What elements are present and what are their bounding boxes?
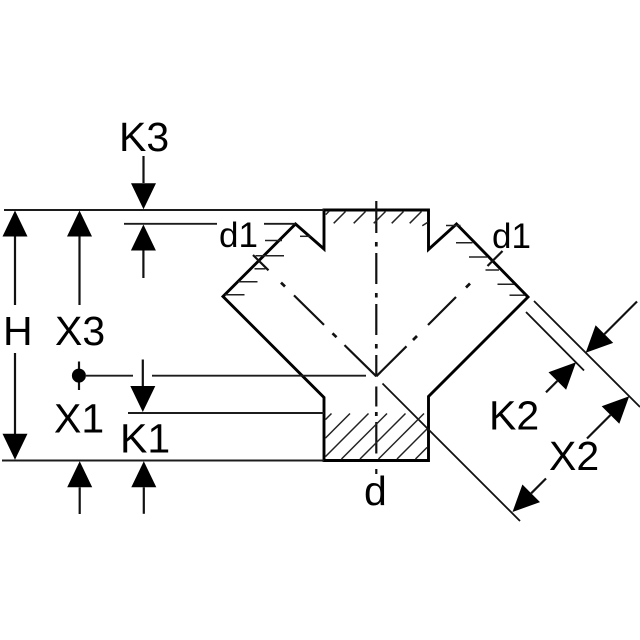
svg-text:d1: d1 — [492, 217, 531, 256]
dimension K2 lower arrow — [546, 362, 576, 392]
right branch socket hatch dashes — [446, 226, 525, 296]
left branch centerline — [253, 255, 376, 376]
dimension K3 lower arrow — [131, 225, 156, 279]
dimension X2 upper arrow — [587, 396, 629, 438]
socket depth extension line — [526, 312, 584, 371]
d1 leader line right segment — [264, 223, 296, 225]
vertical centerline — [375, 201, 377, 474]
svg-text:K2: K2 — [489, 393, 539, 439]
axis extension line — [383, 384, 521, 522]
X1 axis-plane line segment 2 — [152, 375, 366, 377]
svg-text:X2: X2 — [549, 433, 599, 479]
dimension X3 datum tick — [78, 362, 80, 391]
top reference line — [4, 209, 324, 211]
dimension K1 lower arrow — [131, 461, 156, 514]
dimension K1 upper arrow — [130, 360, 155, 413]
svg-text:X1: X1 — [54, 396, 104, 442]
dimension X3 datum dot — [72, 369, 86, 383]
fitting body outline — [223, 210, 528, 461]
dimension K3 upper arrow — [131, 156, 156, 209]
d1 leader line left segment — [124, 223, 217, 225]
svg-text:K1: K1 — [120, 416, 170, 462]
svg-text:H: H — [3, 308, 33, 354]
top socket hatch — [326, 211, 428, 226]
bottom pipe hatch — [325, 414, 427, 460]
X1 axis-plane line segment 1 — [86, 375, 133, 377]
face plane extension line — [534, 301, 640, 407]
right branch centerline — [376, 251, 502, 376]
bottom reference line — [2, 460, 324, 462]
dimension X1 lower arrow — [67, 461, 92, 514]
dimension K2 upper arrow — [586, 302, 637, 353]
dimension H upper arrow — [3, 211, 28, 306]
svg-text:X3: X3 — [55, 308, 105, 354]
svg-text:K3: K3 — [119, 114, 169, 160]
dimension X3 upper arrow — [67, 211, 92, 306]
K1 reference line — [128, 412, 324, 414]
svg-text:d: d — [364, 468, 387, 514]
svg-text:d1: d1 — [219, 216, 258, 255]
dimension H lower arrow — [3, 353, 28, 460]
dimension X2 lower arrow — [513, 479, 547, 513]
left branch socket hatch dashes — [225, 236, 311, 294]
